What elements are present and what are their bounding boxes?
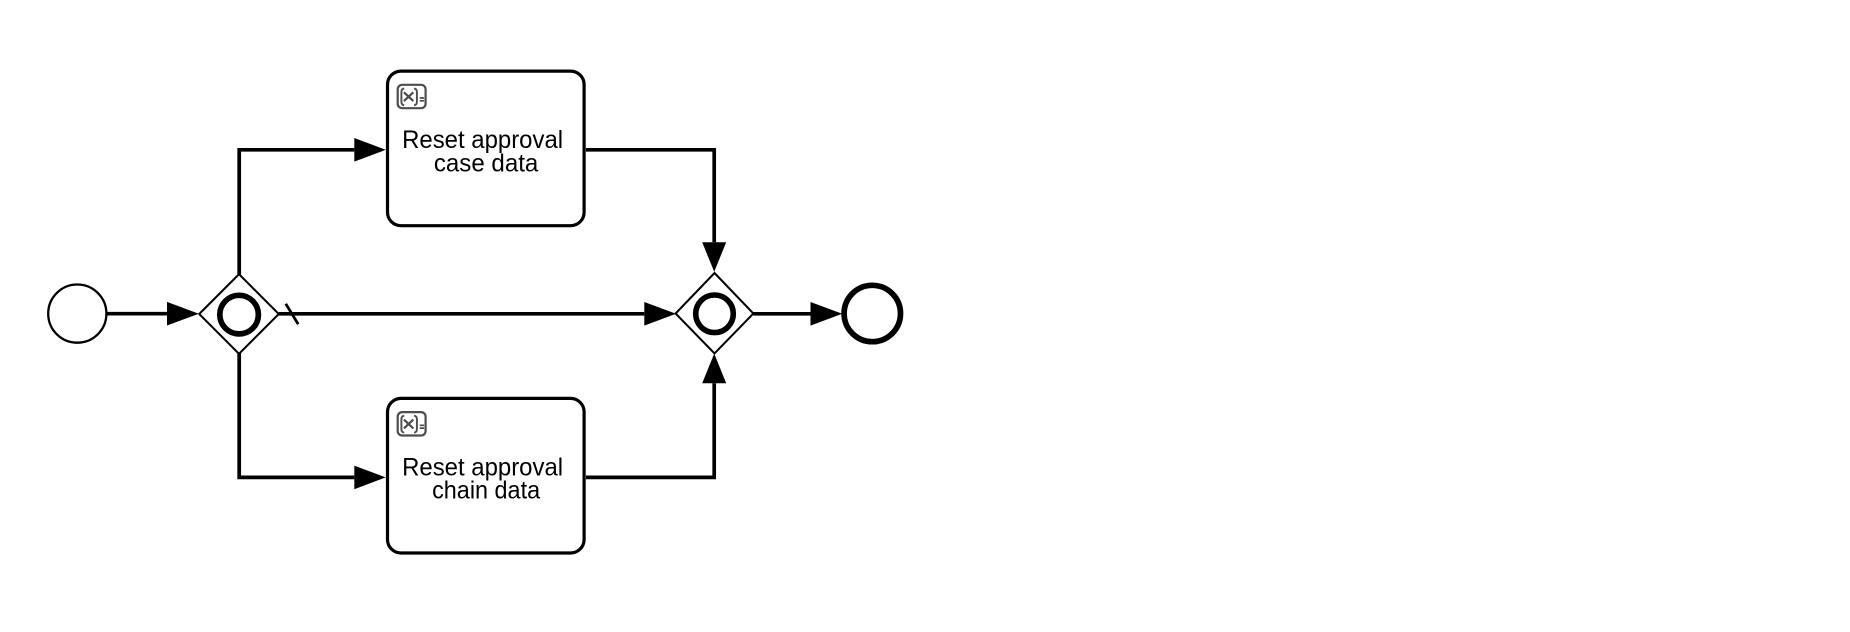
svg-text:case data: case data: [434, 149, 539, 177]
wire gateway1 top -> task1: [239, 150, 354, 275]
svg-text:chain data: chain data: [432, 477, 540, 505]
wire gateway2 -> end event: [753, 312, 810, 316]
wire start->gateway1: [107, 312, 168, 316]
task1: Reset approval case data: [388, 71, 585, 226]
wire gateway1 -> gateway2 (default flow): [279, 312, 645, 316]
task2 service icon [x]=: [398, 412, 426, 435]
end event: [844, 285, 900, 341]
wire task1 -> gateway2: [586, 150, 714, 243]
task1 service icon [x]=: [398, 85, 426, 108]
wire task2 -> gateway2: [586, 383, 714, 477]
task2: Reset approval chain data: [388, 398, 585, 553]
wire gateway1 bottom -> task2: [239, 354, 354, 478]
default flow slash marker: [286, 304, 298, 324]
inclusive gateway G1 (diverging): [199, 274, 279, 354]
inclusive gateway G2 (converging): [676, 273, 754, 353]
start event: [48, 285, 106, 343]
